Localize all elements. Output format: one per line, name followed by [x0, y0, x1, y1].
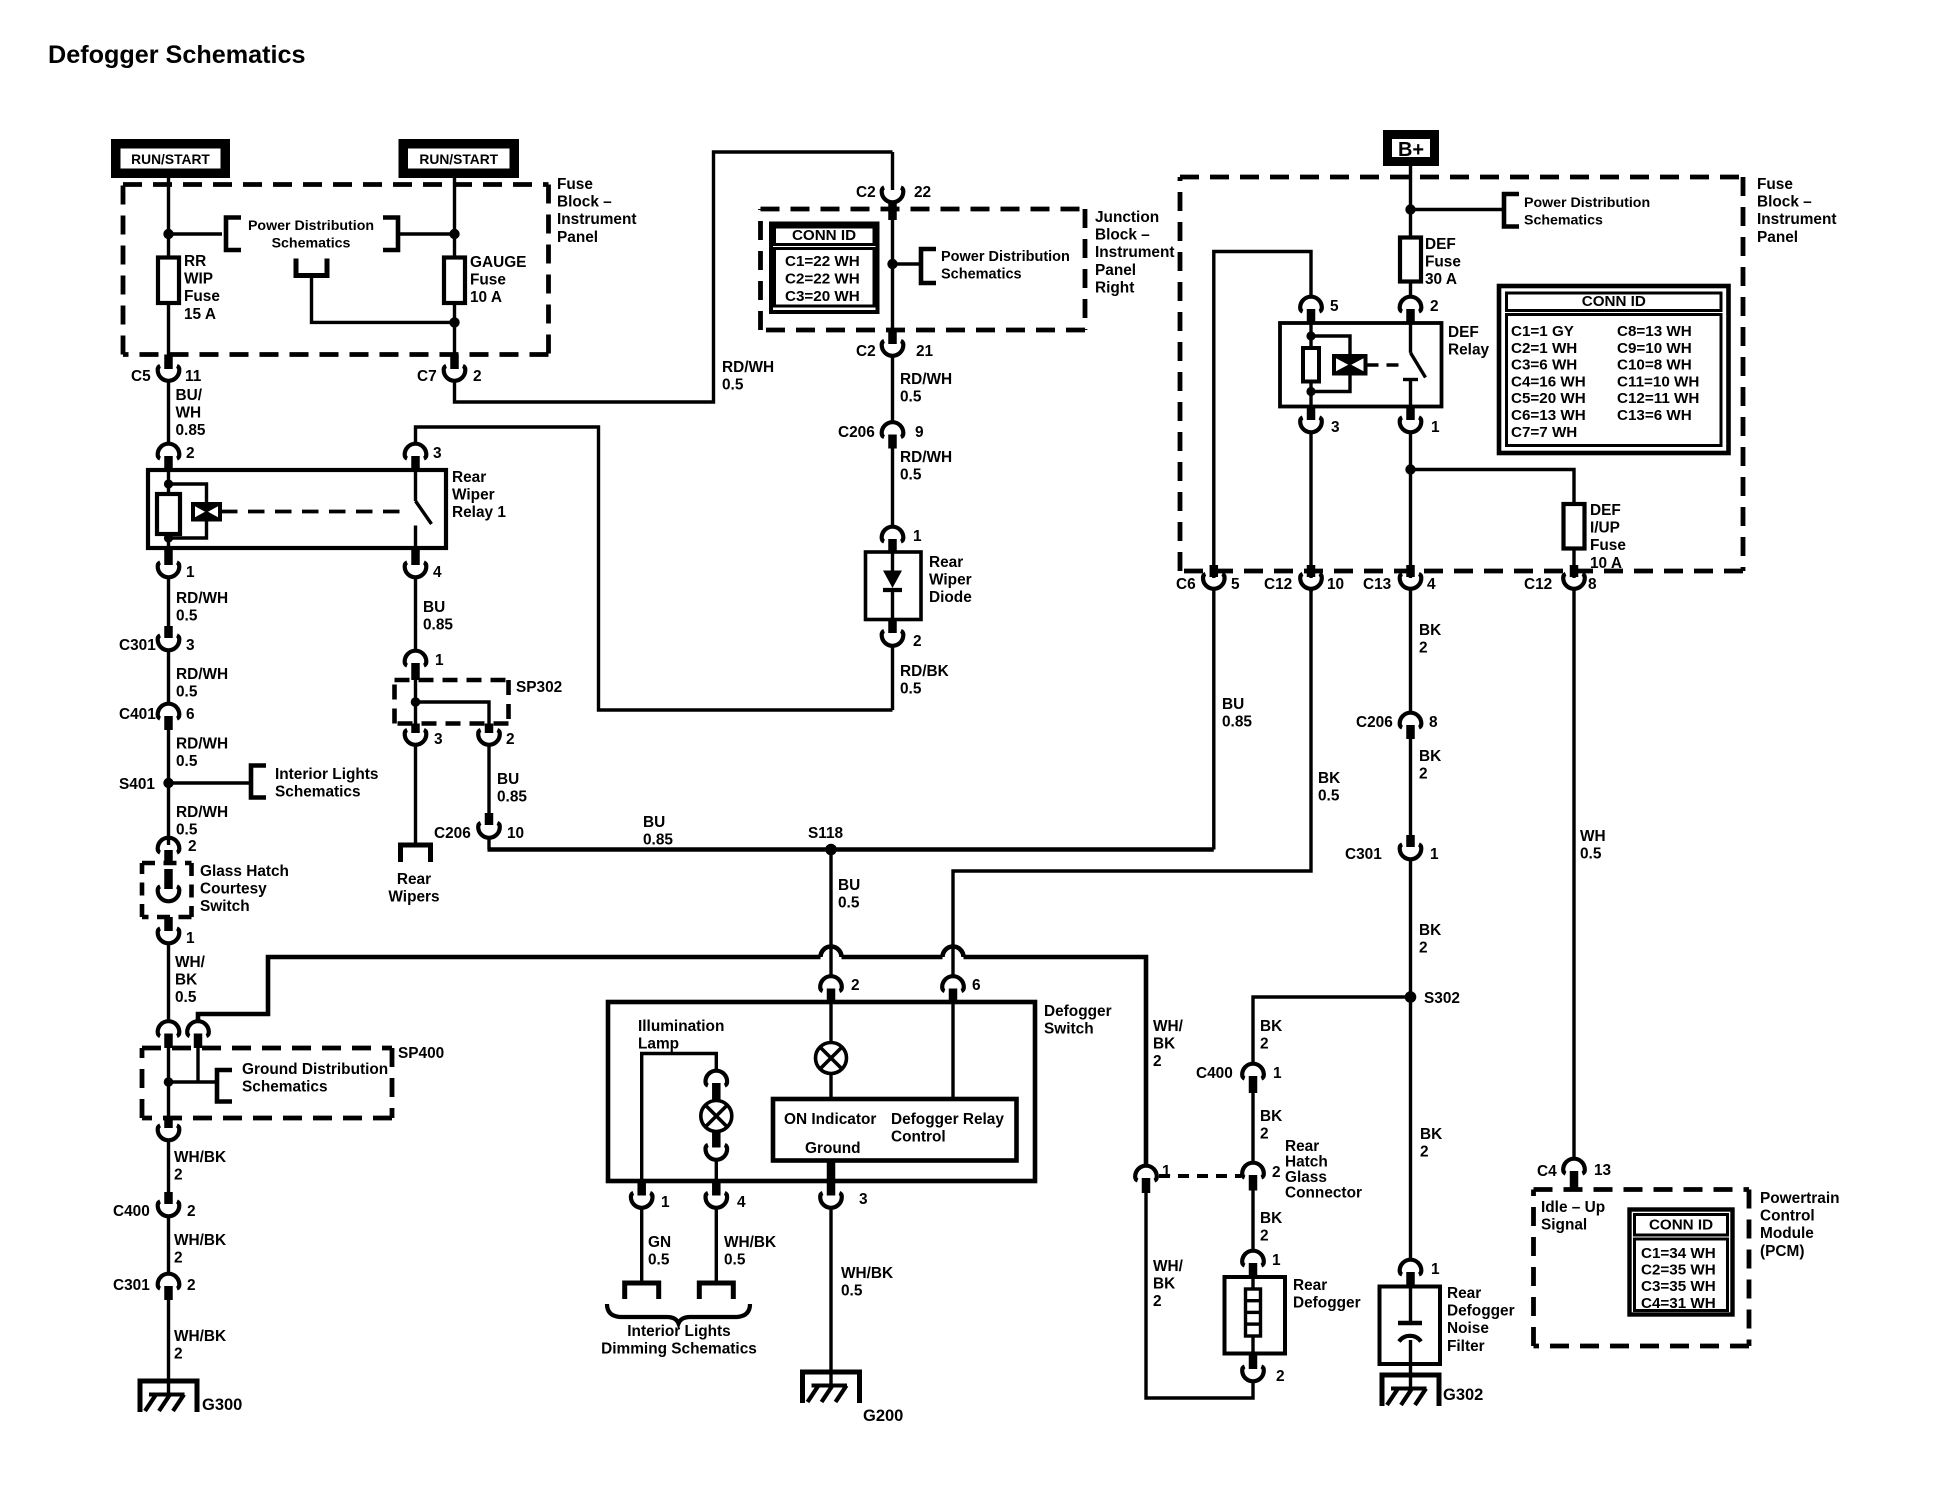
wire RD/WH 0.5 (C206 to diode)	[893, 449, 953, 527]
connector pin 1 of glass hatch switch	[158, 917, 195, 947]
label RR WIP Fuse 15 A	[184, 253, 220, 323]
fuse block label (left)	[557, 176, 637, 246]
DEF relay dashed link	[1367, 363, 1403, 366]
fuse DEF I/UP 10 A	[1564, 502, 1627, 572]
label Defogger Switch	[1044, 1003, 1112, 1038]
svg-text:1: 1	[1431, 1261, 1440, 1278]
svg-text:Defogger Schematics: Defogger Schematics	[48, 41, 306, 69]
noise filter capacitor	[1398, 1287, 1422, 1365]
wire C206-10 to S118 bus	[487, 839, 490, 850]
DEF relay coil branch	[1303, 323, 1367, 407]
label GAUGE Fuse 10 A	[470, 254, 526, 306]
wire C2-22 to C2-21	[891, 220, 894, 344]
svg-text:8: 8	[1429, 714, 1438, 731]
svg-text:B+: B+	[1398, 139, 1424, 161]
svg-text:3: 3	[434, 731, 443, 748]
wire RD/WH 0.5 (S401 to switch)	[169, 783, 229, 845]
SP302 internal wires	[411, 680, 489, 724]
svg-text:C400: C400	[113, 1203, 150, 1220]
svg-text:3: 3	[433, 445, 442, 462]
connector pin 1 of rear wiper diode	[882, 527, 922, 553]
svg-text:2: 2	[186, 445, 195, 462]
connector pin 3 of defogger switch	[820, 1191, 867, 1208]
glass hatch switch contact	[158, 869, 180, 901]
svg-text:2: 2	[187, 1277, 196, 1294]
label Powertrain Control Module (PCM)	[1760, 1190, 1840, 1260]
svg-text:8: 8	[1588, 576, 1597, 593]
terminal interior lights 2	[699, 1283, 733, 1299]
node on GAUGE wire (top)	[449, 229, 459, 239]
connector pin 5 of DEF relay	[1300, 297, 1339, 323]
svg-text:1: 1	[1430, 846, 1439, 863]
svg-text:CONN ID: CONN ID	[1649, 1217, 1713, 1234]
wire DEF fuse to relay pin 2	[1409, 282, 1412, 297]
connector pin 1 of noise filter	[1400, 1260, 1440, 1287]
connector pin 2 of defogger switch	[820, 976, 859, 1002]
ON indicator lamp wire	[829, 1002, 832, 1042]
junction block dashed box	[761, 209, 1086, 330]
connector C12 pin 10	[1264, 565, 1344, 593]
svg-text:C206: C206	[434, 825, 471, 842]
svg-text:C12: C12	[1264, 576, 1292, 593]
rear wiper relay 1 box	[148, 470, 446, 548]
svg-text:3: 3	[186, 637, 195, 654]
wire BK 2 (C13 to C206)	[1411, 590, 1442, 713]
svg-text:Schematics: Schematics	[272, 235, 351, 251]
wire B+ to DEF fuse	[1409, 166, 1412, 238]
wire WH/BK 2 (C301 to G300)	[169, 1300, 227, 1395]
connector pin 1 of defogger switch	[631, 1181, 670, 1211]
PCM CONN ID table	[1630, 1210, 1733, 1315]
wire BU 0.85 (SP302 to C206)	[489, 746, 527, 814]
connector pin 3 of SP302	[405, 724, 443, 749]
svg-text:3: 3	[859, 1191, 868, 1208]
svg-text:RUN/START: RUN/START	[131, 152, 210, 167]
svg-text:9: 9	[915, 424, 924, 441]
svg-text:6: 6	[186, 706, 195, 723]
wire BK 2 (hatch to defogger)	[1253, 1191, 1282, 1251]
wire WH/BK 0.5 (pin3 to G200)	[831, 1209, 893, 1386]
wire WH/BK 2 (C400 to C301)	[169, 1217, 227, 1273]
rear defogger element	[1246, 1277, 1261, 1354]
svg-text:CONN ID: CONN ID	[1582, 293, 1646, 310]
connector into SP400 (right)	[187, 1021, 209, 1048]
label Ground	[805, 1140, 861, 1157]
svg-text:5: 5	[1231, 576, 1240, 593]
connector pin 3 of DEF relay	[1300, 407, 1339, 437]
svg-text:4: 4	[1427, 576, 1436, 593]
svg-text:4: 4	[737, 1194, 746, 1211]
svg-text:S401: S401	[119, 776, 155, 793]
splice S118 bus BU 0.85	[488, 814, 1214, 850]
svg-text:BU0.5: BU0.5	[838, 877, 860, 912]
svg-text:C206: C206	[838, 424, 875, 441]
svg-text:SP400: SP400	[398, 1045, 444, 1062]
label Idle-Up Signal	[1541, 1199, 1605, 1234]
terminal rear wipers	[388, 845, 439, 906]
svg-text:2: 2	[187, 1203, 196, 1220]
connector C206 pin 9	[838, 422, 924, 448]
wire RD/BK 0.5 (diode to splice)	[893, 647, 949, 711]
ON indicator lamp lower wire	[829, 1074, 832, 1099]
wire defogger relay control (pin6 to C12)	[953, 590, 1311, 976]
wire BU 0.85 (relay pin4 to SP302)	[416, 578, 454, 650]
dashed link hatch connector	[1159, 1174, 1241, 1178]
rear defogger noise filter box	[1380, 1287, 1441, 1365]
relay coil branch	[157, 470, 221, 548]
svg-text:1: 1	[1273, 1065, 1282, 1082]
wire WH/BK 2 (SP400 to C400)	[169, 1141, 227, 1204]
svg-text:G302: G302	[1443, 1386, 1483, 1404]
svg-text:2: 2	[506, 731, 515, 748]
wire C7 to C2 (RD/WH 0.5)	[455, 152, 893, 402]
connector into SP400 (left)	[158, 1021, 180, 1048]
connector pin 2 of rear wiper diode	[882, 620, 922, 651]
wire to Power Distribution bracket (left)	[169, 232, 223, 235]
node S302	[1405, 990, 1460, 1007]
wire WH 0.5 (C12-8 to PCM)	[1574, 590, 1606, 1159]
label Rear Hatch Glass Connector	[1285, 1138, 1362, 1202]
wire noise filter to G302	[1409, 1364, 1412, 1389]
svg-text:C7: C7	[417, 368, 437, 385]
wire relay pin3 to rear wiper diode	[416, 427, 893, 710]
node S118	[808, 825, 844, 855]
svg-text:1: 1	[661, 1194, 670, 1211]
fuse DEF 30 A	[1400, 236, 1461, 288]
bracket Power Distribution Schematics (jb)	[921, 249, 1070, 283]
connector C301 pin 3	[119, 626, 195, 654]
connector pin 3 of rear wiper relay	[405, 444, 442, 470]
label Defogger Relay Control	[891, 1111, 1004, 1146]
connector C13 pin 4	[1363, 565, 1436, 593]
illumination lamp	[701, 1101, 732, 1132]
bracket Interior Lights Schematics	[251, 766, 378, 801]
svg-text:Power Distribution: Power Distribution	[248, 218, 374, 234]
connector C206 pin 8	[1356, 713, 1438, 739]
wire BU/WH 0.85	[169, 382, 206, 446]
connector pin 2 of rear defogger	[1242, 1354, 1284, 1386]
ground G200	[803, 1372, 904, 1425]
junction block CONN ID table	[771, 224, 878, 313]
wire relay pin3 to C12-10	[1309, 433, 1312, 578]
svg-text:C301: C301	[119, 637, 156, 654]
wire bracket to GAUGE wire	[398, 232, 455, 235]
wire BU 0.5 (S118 to switch pin 2)	[831, 850, 860, 964]
connector C301 pin 2	[113, 1274, 196, 1300]
svg-text:ON Indicator: ON Indicator	[784, 1111, 876, 1128]
svg-text:S118: S118	[808, 825, 844, 842]
connector pin 2 of glass hatch switch	[158, 838, 197, 863]
fuse block label (right)	[1757, 176, 1837, 246]
DEF relay switch branch	[1403, 323, 1426, 407]
svg-text:C206: C206	[1356, 714, 1393, 731]
svg-text:C401: C401	[119, 706, 156, 723]
connector pin 2 of rear wiper relay	[158, 444, 195, 470]
svg-text:C12: C12	[1524, 576, 1552, 593]
wire node to Power Distribution bracket (jb)	[893, 262, 922, 265]
rear defogger box	[1225, 1277, 1286, 1354]
bracket pair Power Distribution Schematics	[226, 218, 398, 252]
illumination lamp connector lower	[705, 1132, 727, 1182]
connector C5 pin 11	[131, 355, 202, 386]
connector C12 pin 8	[1524, 565, 1597, 593]
wire RD/WH 0.5 (C301 to C401)	[169, 651, 229, 703]
defogger switch box	[608, 1002, 1035, 1181]
svg-text:3: 3	[1331, 419, 1340, 436]
svg-text:1: 1	[186, 930, 195, 947]
wire BK 2 (to C400)	[1260, 1018, 1282, 1053]
wire RD/WH 0.5 (C401 to S401)	[169, 730, 229, 783]
svg-text:2: 2	[473, 368, 482, 385]
wire RUN/START to RR WIP fuse	[167, 178, 170, 258]
wire to DEF I/UP fuse	[1411, 470, 1575, 505]
terminal of Power Distribution reference	[296, 259, 327, 276]
svg-text:GN0.5: GN0.5	[648, 1234, 671, 1269]
connector below SP400	[158, 1118, 180, 1140]
wire BK 2 (S302 to noise filter)	[1411, 997, 1443, 1259]
CONN ID table (fuse block)	[1499, 286, 1729, 453]
connector pin 2 of DEF relay	[1400, 297, 1439, 323]
svg-text:1: 1	[1431, 419, 1440, 436]
ground G300	[140, 1381, 242, 1414]
switch inner box	[773, 1099, 1017, 1161]
label Interior Lights Dimming Schematics	[601, 1323, 757, 1358]
svg-text:11: 11	[185, 368, 202, 385]
ground stem inside switch	[827, 1161, 836, 1196]
svg-text:2: 2	[1430, 298, 1439, 315]
relay dashed link	[221, 510, 405, 514]
wire S302 branch to rear defogger	[1253, 997, 1411, 1063]
wire BK 2 (C301 to S302)	[1411, 860, 1442, 998]
wire relay pin 5 to C6	[1214, 252, 1311, 579]
svg-text:1: 1	[913, 528, 922, 545]
illumination lamp connector upper	[705, 1071, 727, 1101]
splice SP400 dashed box	[142, 1045, 444, 1118]
svg-text:2: 2	[188, 838, 197, 855]
svg-text:21: 21	[916, 343, 934, 360]
label Rear Defogger Noise Filter	[1447, 1285, 1515, 1355]
SP400 internal wires	[164, 1048, 217, 1118]
connector pin 4 of defogger switch	[705, 1181, 746, 1211]
wire S401 to Interior Lights bracket	[169, 781, 252, 784]
label ON Indicator	[784, 1111, 876, 1128]
svg-text:G200: G200	[863, 1407, 903, 1425]
rear wiper diode	[866, 552, 973, 620]
connector pin 1 of rear defogger (wh/bk side)	[1135, 1163, 1171, 1193]
connector C301 pin 1	[1345, 835, 1439, 863]
wire WH/BK 0.5 (pin4)	[716, 1209, 776, 1284]
svg-text:C400: C400	[1196, 1065, 1233, 1082]
svg-text:C13: C13	[1363, 576, 1391, 593]
power rail B+	[1388, 135, 1435, 162]
junction block label	[1095, 209, 1175, 296]
svg-text:C2: C2	[856, 343, 876, 360]
svg-text:C301: C301	[1345, 846, 1382, 863]
PCM dashed box	[1534, 1190, 1750, 1347]
ground bus WH/BK (switch side)	[198, 947, 1146, 1165]
svg-text:C6: C6	[1176, 576, 1196, 593]
illumination lamp branch wire	[642, 1054, 717, 1182]
wire GN 0.5	[642, 1209, 671, 1284]
connector pin 1 below relay	[158, 548, 195, 581]
wire DEF I/UP fuse to C12-8	[1572, 549, 1575, 579]
svg-text:C301: C301	[113, 1277, 150, 1294]
svg-text:BK0.5: BK0.5	[1318, 770, 1340, 805]
svg-text:10: 10	[507, 825, 524, 842]
connector C401 pin 6	[119, 704, 195, 730]
wire WH/BK 0.5 (to SP400)	[169, 944, 206, 1022]
wire RD/WH 0.5 (relay to C301)	[169, 578, 229, 638]
connector pin 6 of defogger switch	[942, 976, 980, 1002]
connector pin 1 of rear defogger	[1242, 1251, 1281, 1277]
node below B+	[1405, 204, 1415, 214]
svg-text:Ground: Ground	[805, 1140, 861, 1157]
connector rear hatch glass pin 2	[1242, 1163, 1280, 1191]
wire SP302 pin3 to rear wipers	[414, 746, 417, 846]
bracket Ground Distribution Schematics	[217, 1061, 388, 1102]
svg-text:C1=34 WHC2=35 WHC3=35 WHC4=31: C1=34 WHC2=35 WHC3=35 WHC4=31 WH	[1641, 1245, 1716, 1312]
ground G302	[1382, 1375, 1483, 1406]
wire BK 2 (C400 to hatch connector)	[1253, 1093, 1282, 1162]
connector pin 2 of SP302	[478, 724, 514, 749]
svg-text:10: 10	[1327, 576, 1344, 593]
connector C2 pin 22	[856, 152, 931, 220]
connector C4 pin 13	[1537, 1159, 1611, 1190]
connector C6 pin 5	[1176, 565, 1240, 593]
wire RUN/START2 to GAUGE fuse	[453, 178, 456, 258]
terminal interior lights 1	[625, 1283, 659, 1299]
label DEF Relay	[1448, 324, 1490, 359]
svg-text:1: 1	[186, 564, 195, 581]
brace interior lights	[607, 1304, 750, 1324]
svg-text:C2: C2	[856, 184, 876, 201]
svg-text:4: 4	[433, 564, 442, 581]
svg-text:2: 2	[1272, 1164, 1281, 1181]
label Rear Defogger	[1293, 1277, 1361, 1312]
power rail RUN/START (right)	[403, 144, 514, 174]
title	[48, 41, 306, 69]
svg-text:RUN/START: RUN/START	[419, 152, 498, 167]
wire RD/WH 0.5 (C2 to C206)	[893, 357, 953, 422]
wire RR WIP fuse to C5	[167, 303, 170, 369]
svg-text:1: 1	[1162, 1163, 1171, 1180]
svg-text:13: 13	[1594, 1162, 1611, 1179]
fuse GAUGE 10 A	[444, 258, 465, 304]
connector C400 pin 1	[1196, 1064, 1282, 1093]
svg-text:SP302: SP302	[516, 679, 562, 696]
wire to Power Distribution bracket (right)	[1411, 208, 1505, 211]
wire GAUGE fuse down to C7	[453, 303, 456, 369]
svg-text:2: 2	[851, 977, 860, 994]
node on GAUGE wire (bottom)	[449, 317, 459, 327]
wire S118 stem lower	[829, 963, 832, 976]
node on RR WIP wire	[163, 229, 173, 239]
connector pin 1 of DEF relay	[1400, 407, 1440, 437]
wire BK 0.5 (C12-10 to switch)	[1311, 590, 1340, 805]
connector C2 pin 21	[856, 330, 934, 360]
wire relay pin1 to C13	[1409, 433, 1412, 578]
DEF relay box	[1280, 323, 1442, 407]
svg-text:C5: C5	[131, 368, 151, 385]
svg-text:5: 5	[1330, 298, 1339, 315]
svg-text:1: 1	[435, 652, 444, 669]
wire BK 2 (C206 to C301)	[1411, 739, 1442, 847]
wire terminal to GAUGE wire	[312, 276, 455, 323]
svg-text:C1=1 GYC2=1 WHC3=6 WHC4=16 WHC: C1=1 GYC2=1 WHC3=6 WHC4=16 WHC5=20 WHC6=…	[1511, 323, 1586, 441]
svg-text:S302: S302	[1424, 990, 1460, 1007]
fuse block - instrument panel dashed box (right)	[1180, 177, 1743, 571]
splice SP302 dashed box	[395, 679, 563, 724]
svg-text:1: 1	[1272, 1252, 1281, 1269]
svg-text:G300: G300	[202, 1396, 242, 1414]
node on junction block wire	[887, 259, 897, 269]
ON indicator lamp	[816, 1043, 847, 1074]
svg-text:2: 2	[913, 633, 922, 650]
connector C7 pin 2	[417, 355, 482, 386]
connector pin 1 of SP302	[405, 651, 444, 680]
svg-text:C4: C4	[1537, 1163, 1557, 1180]
connector C206 pin 10	[434, 813, 524, 842]
wire BU 0.85 (C6 to S118)	[1214, 590, 1253, 850]
fuse block - instrument panel dashed box (left)	[123, 185, 549, 355]
wire WH/BK 2 return	[1146, 1193, 1253, 1398]
svg-text:C1=22 WHC2=22 WHC3=20 WH: C1=22 WHC2=22 WHC3=20 WH	[785, 253, 860, 305]
defogger relay control wire (inside switch)	[951, 1002, 954, 1099]
svg-text:22: 22	[914, 184, 931, 201]
svg-text:CONN ID: CONN ID	[792, 227, 856, 244]
label Rear Wiper Relay 1	[452, 469, 506, 521]
label Illumination Lamp	[638, 1018, 724, 1053]
power rail RUN/START (left)	[116, 144, 226, 174]
relay switch branch	[416, 470, 432, 548]
glass hatch courtesy switch dashed box	[142, 863, 289, 917]
svg-text:2: 2	[1276, 1368, 1285, 1385]
svg-text:C8=13 WHC9=10 WHC10=8 WHC11=10: C8=13 WHC9=10 WHC10=8 WHC11=10 WHC12=11 …	[1617, 323, 1699, 424]
connector pin 4 below relay	[405, 548, 442, 581]
wire WH/BK 2 (bus to defogger)	[1153, 1018, 1184, 1070]
node DEF I/UP branch	[1405, 464, 1415, 474]
connector C400 pin 2	[113, 1192, 196, 1220]
fuse RR WIP 15 A	[158, 258, 179, 304]
node S401	[119, 776, 174, 793]
bracket Power Distribution Schematics (right)	[1504, 194, 1650, 229]
svg-text:6: 6	[972, 977, 981, 994]
